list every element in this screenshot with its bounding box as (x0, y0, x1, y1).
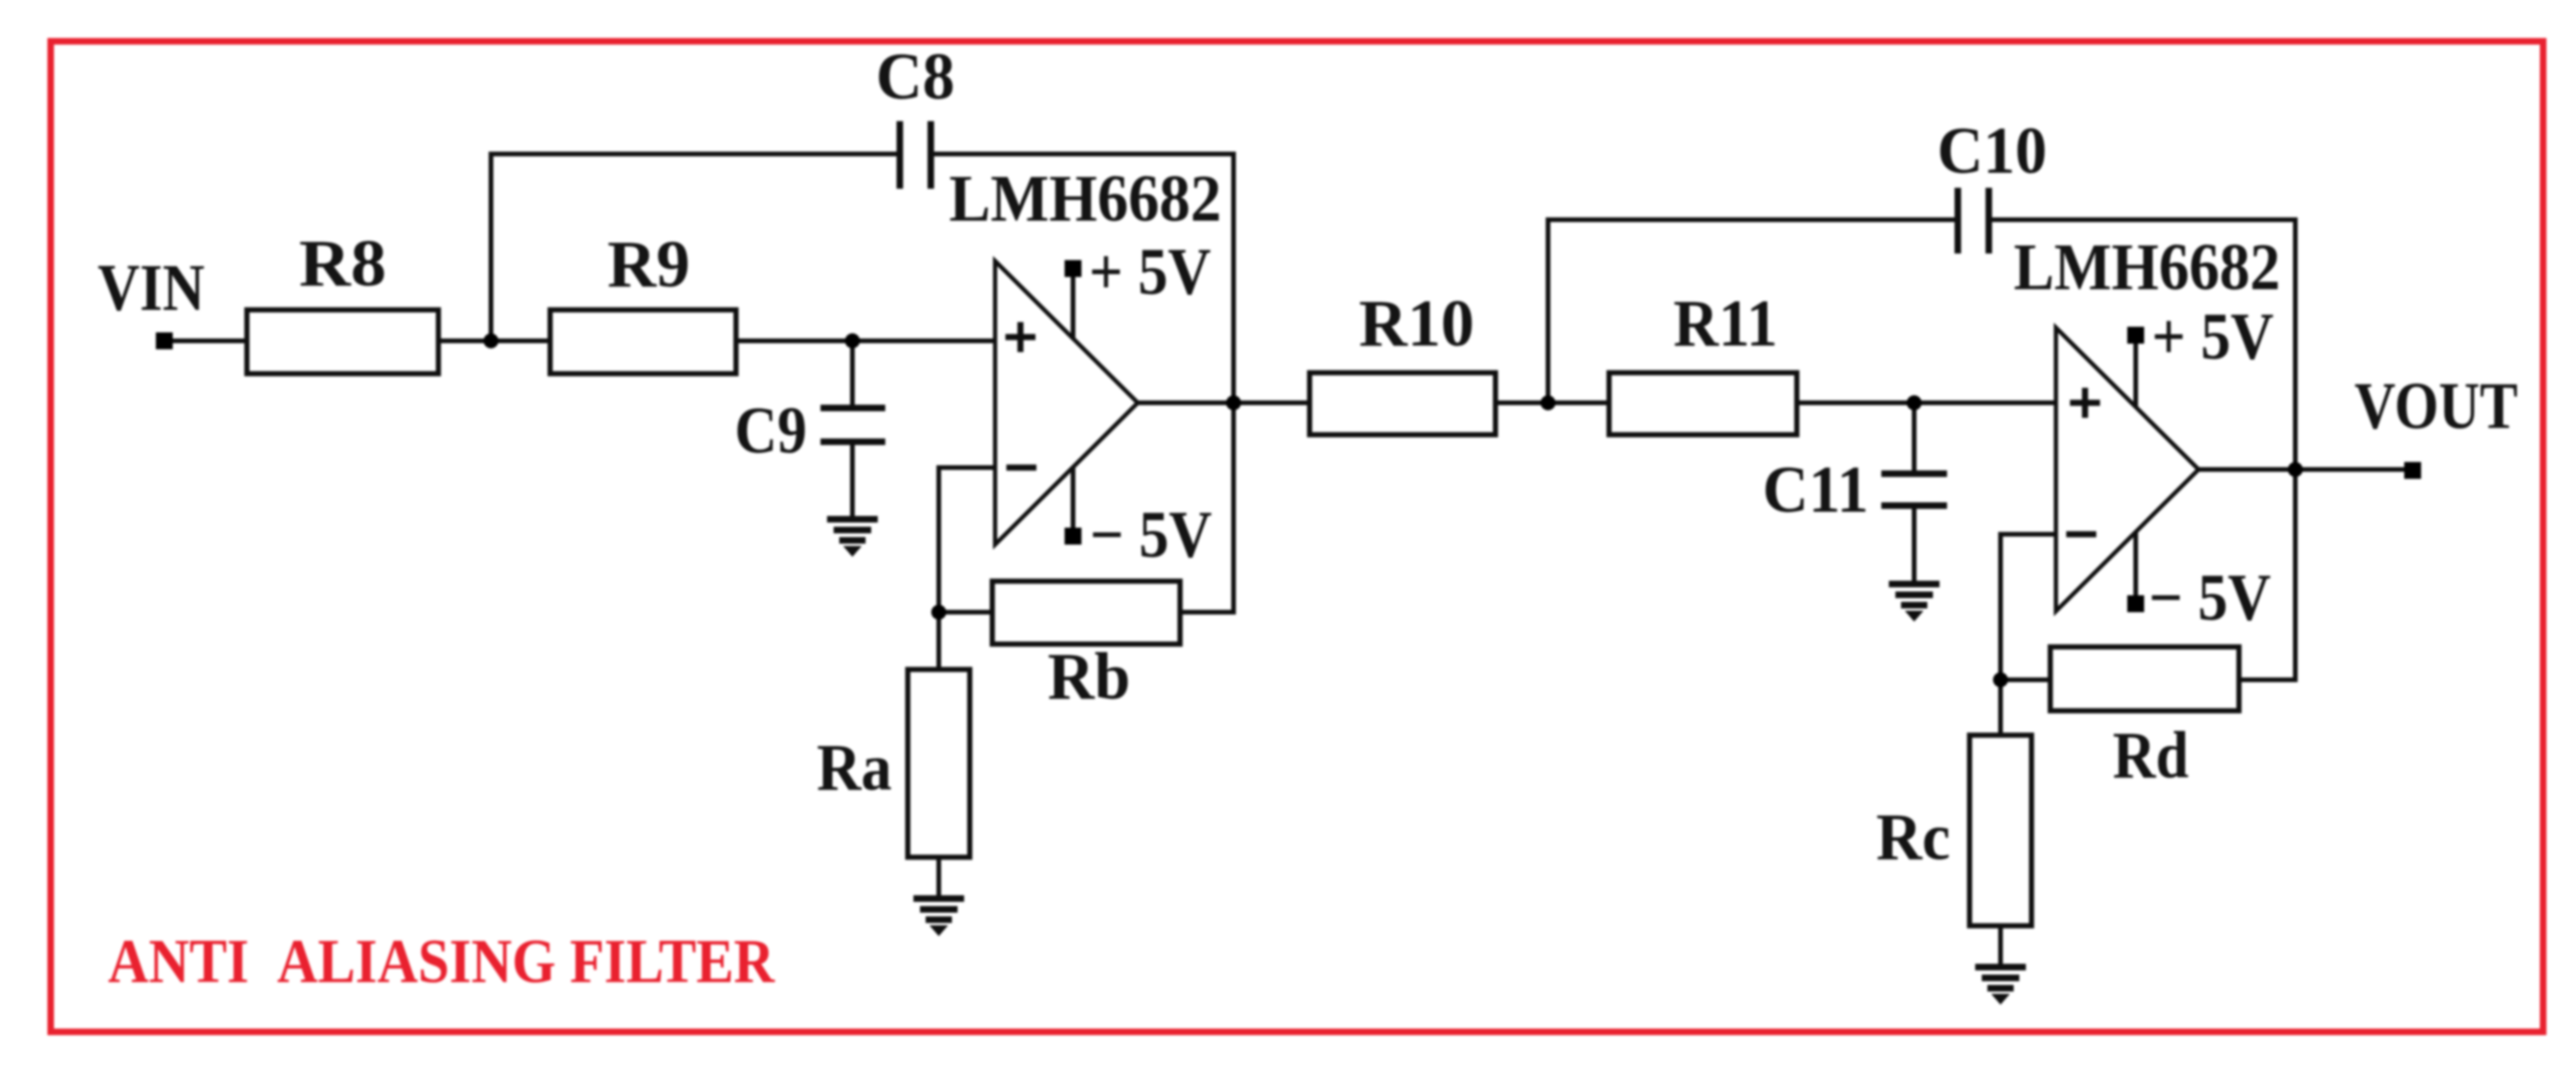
wire U1 - input (939, 468, 997, 612)
wire node C9 down (851, 341, 855, 405)
capacitor C11 (1881, 470, 1947, 477)
wire Rd to feedback vertical (2237, 678, 2295, 683)
wire feedback vertical to U1 output (1232, 152, 1236, 615)
resistor R9 (550, 310, 736, 374)
wire VIN to R8 (164, 339, 249, 344)
wire C8 left feedback (489, 152, 897, 157)
capacitor C9 (820, 405, 885, 411)
U2 +5V pin square (2127, 327, 2144, 344)
svg-text:− 5V: − 5V (2149, 561, 2271, 635)
wire Ra to ground (938, 522, 940, 855)
svg-text:Ra: Ra (817, 731, 892, 805)
node E junction dot (1993, 672, 2008, 687)
wire C9 to ground (851, 444, 855, 520)
wire node C11 down (1912, 403, 1917, 470)
resistor Ra (908, 669, 970, 857)
node A junction dot (483, 333, 498, 348)
wire C10 right feedback (1992, 218, 2298, 223)
wire U1 -5V pin (1071, 460, 1076, 536)
op-amp U1 (995, 261, 1138, 545)
U1 -5V pin square (1065, 528, 1081, 545)
resistor Rc (1970, 735, 2032, 926)
resistor Rb (992, 581, 1180, 644)
wire C11 to ground (1912, 508, 1917, 581)
resistor R10 (1310, 373, 1495, 435)
capacitor C10 (1955, 188, 1961, 254)
wire U2 output to VOUT (2199, 468, 2413, 472)
ground below Ra (913, 899, 964, 920)
resistor R8 (247, 310, 438, 374)
wire Rb to feedback vertical (1178, 610, 1234, 615)
wire node E to Rd (2001, 678, 2052, 683)
svg-text:+ 5V: + 5V (2152, 300, 2274, 374)
U1 + input symbol (1005, 322, 1035, 352)
capacitor C8 (897, 121, 903, 189)
wire U1 output to R10 (1138, 401, 1311, 406)
wire R8 to R9 (437, 339, 552, 344)
wire node E down to Rc (1999, 680, 2003, 737)
svg-text:Rb: Rb (1048, 640, 1130, 714)
wire Rc to ground (1999, 924, 2003, 964)
svg-text:Rd: Rd (2113, 719, 2189, 792)
wire U1 +5V pin (1071, 269, 1076, 346)
wire U2 -5V pin (2134, 527, 2139, 604)
wire U2 - input (2001, 534, 2058, 680)
svg-text:R8: R8 (299, 227, 387, 300)
ground below Rc (1975, 967, 2026, 989)
svg-text:LMH6682: LMH6682 (2014, 231, 2280, 304)
VOUT terminal (2404, 462, 2421, 479)
U1 +5V pin square (1065, 260, 1081, 277)
wire node B down to Ra (937, 612, 942, 671)
ground below C9 (827, 519, 878, 541)
node B junction dot (931, 605, 946, 620)
U1 - input symbol (1006, 465, 1036, 471)
wire C10 left feedback (1546, 218, 1955, 223)
ground below C11 (1889, 584, 1940, 606)
svg-text:− 5V: − 5V (1090, 499, 1212, 572)
node U2 output junction dot (2288, 462, 2303, 477)
node D junction dot (1541, 395, 1556, 410)
svg-text:ANTI ALIASING FILTER: ANTI ALIASING FILTER (108, 927, 775, 996)
resistor R11 (1609, 373, 1797, 435)
svg-text:C9: C9 (735, 394, 807, 468)
wire node D up to C10 (1546, 220, 1551, 403)
svg-text:VIN: VIN (98, 252, 205, 325)
svg-text:Rc: Rc (1877, 801, 1951, 874)
wire feedback vertical to U2 output (2293, 218, 2298, 683)
U2 - input symbol (2066, 531, 2096, 538)
svg-text:+ 5V: + 5V (1089, 236, 1211, 309)
wire R9 to op-amp U1 + input (734, 339, 997, 344)
op-amp U2 (2056, 328, 2199, 611)
svg-text:C10: C10 (1938, 115, 2047, 188)
node C11 junction dot (1907, 395, 1922, 410)
VIN terminal (156, 332, 173, 349)
resistor Rd (2050, 647, 2239, 711)
U2 + input symbol (2070, 388, 2100, 418)
wire R11 to U2 + input (1795, 401, 2058, 406)
svg-text:VOUT: VOUT (2354, 370, 2518, 443)
U2 -5V pin square (2127, 595, 2144, 612)
svg-text:R9: R9 (607, 228, 690, 301)
svg-text:R11: R11 (1674, 287, 1778, 361)
svg-text:LMH6682: LMH6682 (949, 162, 1221, 236)
wire R10 to R11 (1494, 401, 1611, 406)
svg-text:C11: C11 (1763, 453, 1869, 527)
node U1 output junction dot (1226, 395, 1241, 410)
svg-text:R10: R10 (1359, 287, 1475, 361)
wire U2 +5V pin (2134, 335, 2139, 411)
wire C8 right feedback (934, 152, 1236, 157)
svg-text:C8: C8 (876, 40, 955, 114)
node C9 junction dot (845, 333, 860, 348)
wire node B to Rb (939, 610, 994, 615)
wire node A up to C8 (489, 154, 494, 341)
